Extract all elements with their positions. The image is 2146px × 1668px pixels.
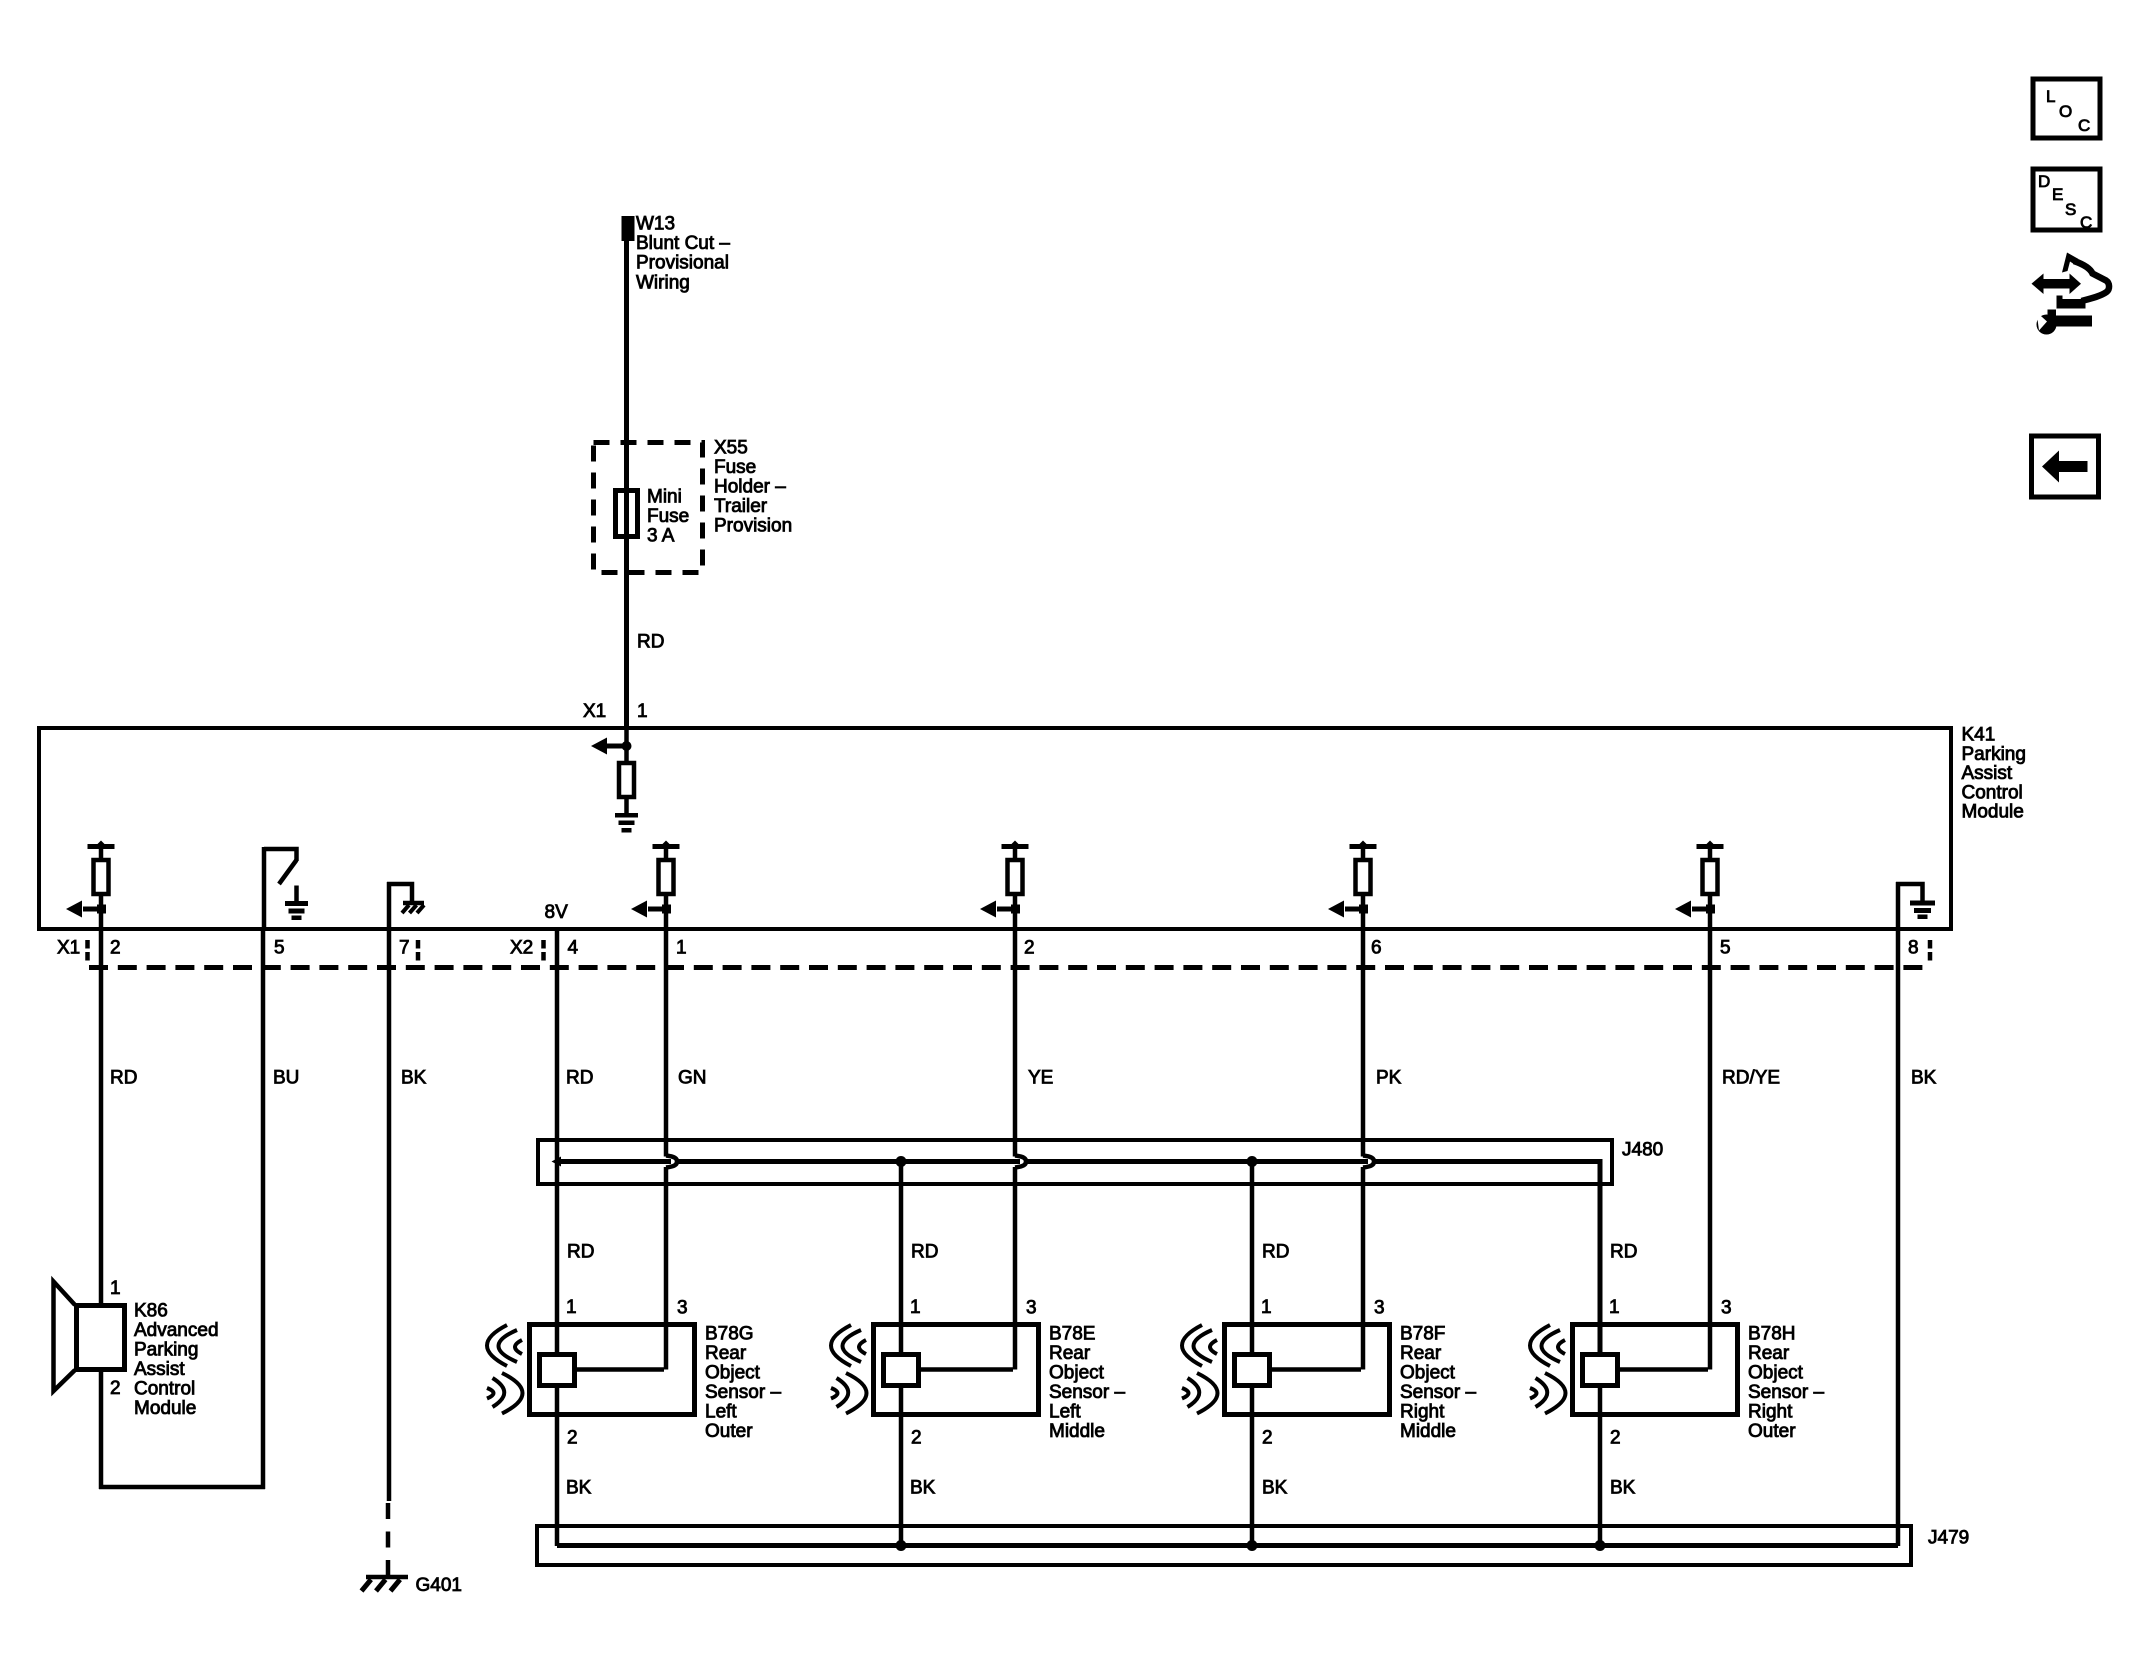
wire PK (X2-6 to B78F pin 3) (1361, 929, 1366, 1157)
svg-text:5: 5 (1720, 938, 1731, 959)
label B78H text block (1748, 1324, 1824, 1443)
svg-text:RD: RD (637, 632, 664, 653)
svg-text:Object: Object (705, 1363, 761, 1384)
resistor pin symbol (K41 pin X2-2) (980, 841, 1029, 930)
sonic waves upper (B78G) (487, 1325, 522, 1366)
sensor B78E box (Rear Object Sensor) (874, 1325, 1039, 1415)
wire B78F pin2 to J479 (1250, 1386, 1255, 1546)
label B78E text block (1049, 1324, 1125, 1443)
svg-text:Trailer: Trailer (714, 496, 768, 517)
sensor B78H emitter square (1583, 1355, 1618, 1386)
labels B78G pins 1 3 2 (566, 1297, 688, 1449)
svg-text:3: 3 (1026, 1298, 1037, 1319)
sonic waves upper (B78H) (1530, 1325, 1565, 1366)
svg-text:2: 2 (1262, 1428, 1273, 1449)
labels K86 pins 1 2 (110, 1278, 121, 1399)
svg-text:Sensor –: Sensor – (1748, 1382, 1824, 1403)
label connector pin row X1/X2 (57, 938, 1919, 959)
arrow internal (X1-1) (591, 738, 627, 755)
svg-text:B78G: B78G (705, 1324, 754, 1345)
svg-text:Sensor –: Sensor – (705, 1382, 781, 1403)
svg-text:L: L (2046, 87, 2055, 106)
wire BK dashed part to G401 (386, 1503, 391, 1576)
svg-text:E: E (2052, 185, 2063, 204)
svg-text:2: 2 (110, 1378, 121, 1399)
svg-text:Blunt Cut –: Blunt Cut – (636, 233, 730, 254)
wire hop jog PK over J480 bus (1363, 1156, 1374, 1168)
svg-text:Provision: Provision (714, 516, 792, 537)
labels RD sensor feed row (567, 1242, 1637, 1263)
label K86 Advanced Parking Assist Control Module (134, 1301, 219, 1420)
wire RD J480 to B78H pin 1 (1598, 1159, 1603, 1355)
svg-text:Middle: Middle (1400, 1421, 1456, 1442)
svg-text:3: 3 (1374, 1298, 1385, 1319)
wire resistor to ground (X1-1) (624, 797, 629, 813)
svg-text:1: 1 (676, 938, 687, 959)
svg-text:Sensor –: Sensor – (1049, 1382, 1125, 1403)
splice bus J480 (552, 1157, 1601, 1167)
svg-text:RD: RD (1610, 1242, 1637, 1263)
svg-text:BK: BK (1610, 1478, 1636, 1499)
svg-text:C: C (2080, 213, 2092, 232)
ground symbol internal (K41 pin X2-8) (1896, 882, 1935, 929)
wire B78G pin2 to J479 (555, 1386, 560, 1546)
svg-text:Outer: Outer (705, 1421, 753, 1442)
svg-text:Parking: Parking (134, 1340, 198, 1361)
labels BK sensor ground row (566, 1478, 1636, 1499)
svg-text:2: 2 (1610, 1428, 1621, 1449)
svg-text:BK: BK (1262, 1478, 1288, 1499)
chassis ground G401 (362, 1577, 409, 1591)
wire X1-1 entry into K41 (624, 728, 629, 762)
sonic waves lower (B78G) (487, 1373, 523, 1414)
icon LOC button (2033, 79, 2100, 138)
wire RD J480 to B78E pin 1 (899, 1162, 904, 1356)
svg-text:Rear: Rear (1748, 1343, 1790, 1364)
svg-text:Advanced: Advanced (134, 1320, 219, 1341)
svg-text:Provisional: Provisional (636, 253, 729, 274)
svg-text:8: 8 (1908, 938, 1919, 959)
svg-text:K41: K41 (1962, 725, 1996, 746)
svg-text:2: 2 (911, 1428, 922, 1449)
svg-text:BK: BK (401, 1068, 427, 1089)
wire B78F pin3 internal link (1269, 1367, 1361, 1372)
wire B78E pin2 to J479 (899, 1386, 904, 1546)
svg-text:2: 2 (1024, 938, 1035, 959)
icon swap part (wrench) (2037, 310, 2093, 335)
label B78G text block (705, 1324, 781, 1443)
svg-text:3: 3 (1721, 1298, 1732, 1319)
svg-text:GN: GN (678, 1068, 707, 1089)
resistor pin symbol (K41 pin X2-1) (631, 841, 680, 930)
svg-text:Rear: Rear (1049, 1343, 1091, 1364)
svg-text:X1: X1 (583, 701, 606, 722)
svg-text:Control: Control (1962, 782, 2023, 803)
svg-text:1: 1 (910, 1297, 921, 1318)
sensor B78G box (Rear Object Sensor) (530, 1325, 695, 1415)
svg-text:S: S (2065, 200, 2076, 219)
svg-text:C: C (2078, 116, 2090, 135)
svg-text:1: 1 (1261, 1297, 1272, 1318)
wire RD/YE (X2-5 to B78H pin 3) (1708, 929, 1713, 1370)
module K41 Parking Assist Control Module box (39, 728, 1951, 929)
svg-text:D: D (2038, 172, 2050, 191)
wire BU (X1-5 to K86 pin 2 loop) (261, 929, 266, 1489)
junction dot J480-B78E (896, 1156, 907, 1167)
svg-text:RD: RD (1262, 1242, 1289, 1263)
ground symbol (switch, pin X1-5) (285, 886, 308, 921)
svg-text:1: 1 (110, 1278, 121, 1299)
svg-text:B78E: B78E (1049, 1324, 1095, 1345)
junction dot J480-B78F (1247, 1156, 1258, 1167)
svg-text:2: 2 (567, 1428, 578, 1449)
svg-text:Parking: Parking (1962, 744, 2026, 765)
icon back button (2032, 436, 2099, 497)
svg-text:1: 1 (566, 1297, 577, 1318)
label B78F text block (1400, 1324, 1476, 1443)
ground symbol internal (X1-1) (615, 813, 638, 833)
svg-text:1: 1 (637, 701, 648, 722)
sonic waves lower (B78F) (1182, 1373, 1218, 1414)
labels B78H pins 1 3 2 (1609, 1297, 1732, 1449)
svg-text:O: O (2059, 102, 2072, 121)
svg-text:2: 2 (110, 938, 121, 959)
wire bottom horizontal (K86 loop) (99, 1485, 265, 1490)
resistor pin symbol (K41 pin X2-6) (1328, 841, 1377, 930)
wire W13 blunt cut cap (622, 216, 635, 241)
svg-text:Fuse: Fuse (714, 457, 756, 478)
svg-text:3: 3 (677, 1298, 688, 1319)
wire RD (X1-2 to K86 pin 1) (99, 929, 104, 1305)
labels B78F pins 1 3 2 (1261, 1297, 1385, 1449)
speaker K86 horn (54, 1282, 76, 1392)
svg-text:Module: Module (134, 1398, 196, 1419)
wire B78H pin3 internal link (1617, 1367, 1708, 1372)
splice pack J479 box (537, 1526, 1911, 1565)
svg-text:5: 5 (274, 938, 285, 959)
sensor B78F box (Rear Object Sensor) (1225, 1325, 1390, 1415)
wire K86 pin2 drop (99, 1370, 104, 1489)
wire B78H pin2 to J479 (1598, 1386, 1603, 1546)
svg-text:B78H: B78H (1748, 1324, 1796, 1345)
connector dashed line (harness connector face) (89, 965, 1930, 970)
svg-text:Module: Module (1962, 802, 2024, 823)
junction dot J479-B78H (1595, 1540, 1606, 1551)
label connector X1 pin 1 (583, 701, 648, 722)
chassis ground internal (K41 pin X1-7) (387, 882, 424, 929)
icon DESC button (2033, 169, 2100, 232)
svg-text:RD: RD (566, 1068, 593, 1089)
svg-text:Mini: Mini (647, 487, 682, 508)
sensor B78F emitter square (1235, 1355, 1270, 1386)
svg-text:W13: W13 (636, 214, 675, 235)
svg-text:YE: YE (1028, 1068, 1053, 1089)
svg-text:BK: BK (1911, 1068, 1937, 1089)
sonic waves upper (B78E) (831, 1325, 866, 1366)
svg-text:Assist: Assist (1962, 763, 2013, 784)
sonic waves lower (B78H) (1530, 1373, 1566, 1414)
svg-text:6: 6 (1371, 938, 1382, 959)
wire RD J480 to B78F pin 1 (1250, 1162, 1255, 1356)
label W13 Blunt Cut Provisional Wiring (636, 214, 730, 294)
svg-text:7: 7 (399, 938, 410, 959)
svg-text:Middle: Middle (1049, 1421, 1105, 1442)
fuse F Mini Fuse 3A (616, 460, 638, 560)
svg-text:8V: 8V (545, 902, 569, 923)
speaker K86 body square (77, 1306, 125, 1370)
svg-text:Right: Right (1400, 1402, 1445, 1423)
fuse holder X55 dashed box (594, 443, 703, 573)
svg-text:Object: Object (1400, 1363, 1456, 1384)
svg-text:RD/YE: RD/YE (1722, 1068, 1780, 1089)
svg-text:4: 4 (568, 938, 579, 959)
splice pack J480 box (538, 1140, 1612, 1184)
svg-text:G401: G401 (416, 1575, 462, 1596)
icon swap part (curved arrow outline) (2057, 253, 2110, 309)
svg-text:X1: X1 (57, 938, 80, 959)
svg-text:B78F: B78F (1400, 1324, 1445, 1345)
svg-text:RD: RD (567, 1242, 594, 1263)
wire YE (X2-2 to B78E pin 3) (1013, 929, 1018, 1157)
junction dot J479-B78E (896, 1540, 907, 1551)
svg-text:Holder –: Holder – (714, 477, 786, 498)
switch internal (K41 pin X1-5) (264, 847, 297, 929)
label Mini Fuse 3 A (647, 487, 689, 547)
svg-text:Right: Right (1748, 1402, 1793, 1423)
svg-text:X55: X55 (714, 438, 748, 459)
label X55 Fuse Holder Trailer Provision (714, 438, 792, 537)
svg-text:1: 1 (1609, 1297, 1620, 1318)
junction dot J479-B78F (1247, 1540, 1258, 1551)
sensor B78E emitter square (884, 1355, 919, 1386)
labels wire colors row (110, 1068, 1937, 1089)
svg-text:X2: X2 (510, 938, 533, 959)
sensor B78H box (Rear Object Sensor) (1573, 1325, 1738, 1415)
svg-text:3 A: 3 A (647, 526, 675, 547)
wire hop jog YE over J480 bus (1015, 1156, 1026, 1168)
svg-text:Outer: Outer (1748, 1421, 1796, 1442)
svg-text:BK: BK (910, 1478, 936, 1499)
svg-text:BU: BU (273, 1068, 299, 1089)
svg-text:K86: K86 (134, 1301, 168, 1322)
svg-text:RD: RD (911, 1242, 938, 1263)
wire hop jog GN over J480 bus (666, 1156, 677, 1168)
icon swap part (double arrow) (2032, 274, 2082, 295)
junction dot X1-1 (622, 741, 632, 751)
connector separator dashes (88, 940, 1931, 961)
svg-text:Sensor –: Sensor – (1400, 1382, 1476, 1403)
svg-text:J480: J480 (1622, 1140, 1663, 1161)
wire B78G pin3 internal link (574, 1367, 664, 1372)
wire RD (X2-4 through J480 to B78G pin 1) (555, 929, 560, 1355)
wire BK (X2-8 to J479) (1896, 929, 1901, 1546)
svg-text:Left: Left (705, 1402, 737, 1423)
svg-text:Left: Left (1049, 1402, 1081, 1423)
svg-text:Control: Control (134, 1379, 195, 1400)
svg-text:J479: J479 (1928, 1528, 1969, 1549)
sonic waves lower (B78E) (831, 1373, 867, 1414)
svg-text:Object: Object (1748, 1363, 1804, 1384)
svg-text:Rear: Rear (1400, 1343, 1442, 1364)
wire B78E pin3 internal link (918, 1367, 1013, 1372)
svg-text:BK: BK (566, 1478, 592, 1499)
svg-text:Fuse: Fuse (647, 506, 689, 527)
resistor pin symbol (K41 pin X2-5) (1675, 841, 1724, 930)
sonic waves upper (B78F) (1182, 1325, 1217, 1366)
svg-text:RD: RD (110, 1068, 137, 1089)
resistor internal (X1-1) (619, 763, 634, 797)
labels B78E pins 1 3 2 (910, 1297, 1037, 1449)
resistor pin symbol (K41 pin X1-2) (66, 841, 115, 930)
label K41 Parking Assist Control Module (1962, 725, 2026, 823)
wire W13 vertical feed (624, 228, 629, 728)
wire GN (X2-1 to B78G pin 3) (664, 929, 669, 1157)
svg-text:Object: Object (1049, 1363, 1105, 1384)
splice bus J479 (557, 1543, 1898, 1548)
svg-text:Wiring: Wiring (636, 272, 690, 293)
svg-text:Assist: Assist (134, 1359, 185, 1380)
wire BK (X1-7 to G401) solid part (387, 929, 392, 1501)
sensor B78G emitter square (540, 1355, 575, 1386)
svg-text:PK: PK (1376, 1068, 1402, 1089)
svg-text:Rear: Rear (705, 1343, 747, 1364)
